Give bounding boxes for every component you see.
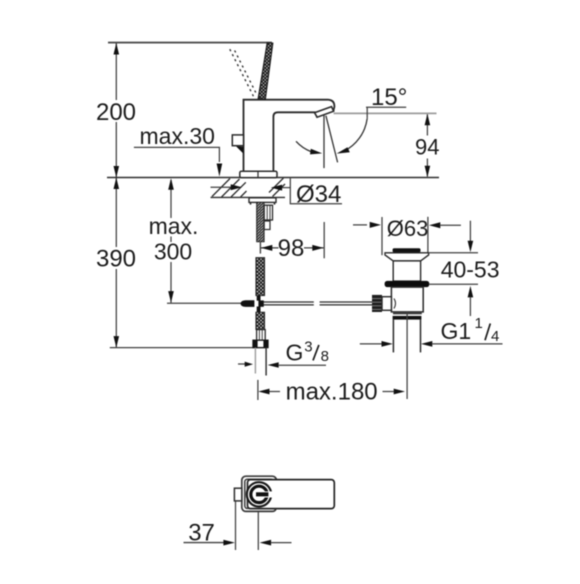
dimension line max.300 bbox=[168, 178, 174, 303]
top view: handle bar bbox=[248, 480, 335, 509]
escutcheon base plate bbox=[240, 171, 277, 177]
svg-text:Ø63: Ø63 bbox=[387, 216, 429, 241]
svg-text:300: 300 bbox=[154, 238, 192, 264]
deck hatching right bbox=[269, 178, 285, 197]
threaded mounting stud bbox=[257, 202, 265, 241]
water stream vertical line bbox=[323, 115, 325, 168]
deck bottom line bbox=[211, 196, 286, 198]
svg-text:390: 390 bbox=[96, 245, 136, 272]
mounting washer under deck bbox=[249, 198, 276, 205]
top view: logo circle bbox=[247, 482, 273, 506]
svg-text:max.180: max.180 bbox=[286, 379, 378, 406]
hose nut G3/8 bbox=[253, 340, 268, 347]
rod axis extension line to max.300 bbox=[167, 302, 243, 304]
svg-text:98: 98 bbox=[278, 235, 305, 262]
swing arc left with arrow bbox=[296, 141, 322, 154]
gasket level reference line bbox=[429, 283, 478, 285]
svg-text:200: 200 bbox=[96, 99, 136, 126]
waste flange bbox=[385, 253, 429, 261]
handle lever bbox=[258, 43, 273, 100]
deck surface line bbox=[107, 177, 439, 179]
water stream tilted line bbox=[326, 116, 338, 163]
label 200 bbox=[94, 99, 136, 126]
label diameter 34 with leader bbox=[290, 178, 342, 208]
mounting nut bbox=[264, 205, 272, 229]
hose link lower bbox=[257, 307, 261, 313]
dimension 98 bbox=[260, 222, 324, 262]
top view: faucet base square outer bbox=[242, 476, 277, 511]
dimension max.180 bbox=[258, 379, 405, 406]
hose end fitting bbox=[257, 330, 266, 341]
svg-text:8: 8 bbox=[321, 348, 329, 365]
pop-up rod horizontal bbox=[264, 302, 373, 305]
deck hatching left bbox=[212, 179, 247, 198]
label G1 1/4 bbox=[441, 315, 500, 345]
flange level reference line bbox=[429, 252, 478, 254]
flexible hose braided upper bbox=[256, 258, 265, 296]
svg-text:max.30: max.30 bbox=[140, 123, 215, 149]
waste body bbox=[391, 287, 423, 312]
waste rubber gasket bbox=[385, 281, 430, 287]
hose link to pop-up rod bbox=[257, 296, 261, 301]
pop-up rod left bullet bbox=[241, 300, 264, 307]
waste knurled knob bbox=[372, 295, 382, 312]
diameter 34 arrows bbox=[211, 184, 291, 190]
svg-text:max.: max. bbox=[149, 213, 199, 239]
swing arc right with arrow bbox=[337, 118, 368, 153]
svg-text:37: 37 bbox=[188, 519, 215, 546]
svg-text:Ø34: Ø34 bbox=[296, 181, 341, 208]
svg-text:G1: G1 bbox=[441, 318, 472, 344]
label G3/8 bbox=[286, 338, 329, 365]
svg-text:4: 4 bbox=[491, 328, 499, 345]
svg-text:G: G bbox=[286, 339, 304, 365]
svg-text:40-53: 40-53 bbox=[441, 257, 500, 283]
connection tube bbox=[255, 348, 266, 376]
dimension G1 1/4 arrows bbox=[360, 341, 503, 347]
waste coupling stripes bbox=[393, 313, 422, 320]
waste knob link bbox=[382, 297, 391, 311]
spout aerator bbox=[315, 107, 334, 118]
dimension line 200/390 vertical bbox=[114, 43, 120, 348]
waste center line bbox=[406, 312, 408, 399]
label 390 bbox=[94, 245, 136, 272]
dimension 390 bottom reference line bbox=[110, 347, 266, 349]
faucet body bbox=[244, 100, 335, 172]
svg-text:3: 3 bbox=[304, 338, 312, 355]
dimension 40-53 bbox=[441, 221, 500, 316]
label max.30 with leader bbox=[134, 123, 222, 177]
dimension 94 bbox=[415, 114, 439, 178]
label max. 300 bbox=[147, 213, 200, 264]
top reference line (handle tip level) bbox=[108, 42, 272, 44]
waste drain: dimension diameter 63 bbox=[353, 216, 461, 255]
svg-text:1: 1 bbox=[475, 315, 483, 332]
handle alternate position dashed bbox=[230, 48, 257, 97]
waste plug top black band bbox=[393, 248, 421, 252]
label 15 degrees bbox=[366, 84, 407, 119]
pull-rod knob on body bbox=[232, 135, 243, 154]
waste tailpipe bbox=[393, 320, 420, 353]
spout reference gray line bbox=[334, 112, 437, 114]
waste neck bbox=[393, 261, 420, 281]
flexible hose braided lower bbox=[256, 312, 265, 329]
top view: spout tab left bbox=[234, 488, 241, 501]
dimension G3/8 arrows bbox=[238, 362, 326, 368]
dimension 37 bbox=[184, 502, 292, 551]
svg-text:94: 94 bbox=[415, 134, 439, 159]
